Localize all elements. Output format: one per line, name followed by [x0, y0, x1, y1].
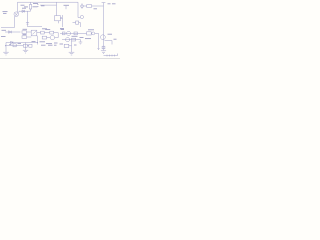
node net line [62, 15, 64, 27]
wire bottom row [6, 42, 38, 44]
transistor Q1 [14, 12, 19, 17]
capacitor C2 [26, 22, 29, 24]
capacitor C8 [29, 44, 32, 47]
wire mid drop [27, 11, 29, 26]
wire ground drop mid [25, 43, 27, 51]
op-amp U1 box [56, 2, 58, 15]
crystal X1 [41, 31, 45, 34]
power flag VCC [102, 2, 106, 4]
wire left column [1, 17, 15, 28]
resistor R5 [22, 36, 27, 39]
source V1 [81, 3, 83, 9]
ground right [101, 51, 106, 54]
wire feedback [37, 36, 39, 45]
capacitor C7 [23, 44, 27, 47]
op-amp U2 [31, 30, 37, 36]
wire node row [19, 10, 31, 12]
wire top rail [18, 1, 79, 3]
resistor R7 [73, 22, 76, 24]
wire column [57, 33, 59, 38]
resistor R6 [50, 31, 54, 34]
ground [23, 50, 28, 53]
wire right rail [103, 3, 105, 51]
wire second rail [40, 4, 57, 6]
ground [69, 52, 75, 55]
diode D2 [5, 31, 21, 33]
capacitor C5 [64, 44, 69, 47]
capacitor C9 [102, 46, 105, 49]
wire rail B [83, 5, 86, 7]
text labels (approximated as dashes) [1, 4, 117, 46]
wire to right [28, 26, 43, 28]
transistor Q5 [101, 35, 106, 40]
frame bottom line [0, 57, 120, 59]
diode D3 [11, 41, 13, 43]
wire mid row 1 [60, 32, 87, 34]
resistor R4 [22, 31, 27, 34]
wire bottom right [104, 54, 118, 56]
ground [79, 42, 83, 44]
capacitor C4 [42, 36, 46, 39]
resistor R8 [87, 5, 92, 8]
wire bottom chain [6, 45, 24, 47]
ground [3, 52, 9, 55]
resistor R2 [30, 2, 32, 4]
transistor Q3 [67, 31, 71, 35]
transistor Q4 [66, 38, 70, 42]
capacitor C6 [13, 44, 16, 47]
wire left drop [17, 2, 19, 10]
transistor Q2 [50, 35, 54, 39]
resistor R9 [87, 32, 92, 35]
wire right drop [77, 2, 79, 17]
wire mid row 2 [62, 39, 79, 41]
node cluster [80, 15, 83, 18]
wire right mid drop [98, 33, 100, 49]
wire ground drop left [5, 43, 7, 53]
diode D1 [22, 10, 25, 13]
